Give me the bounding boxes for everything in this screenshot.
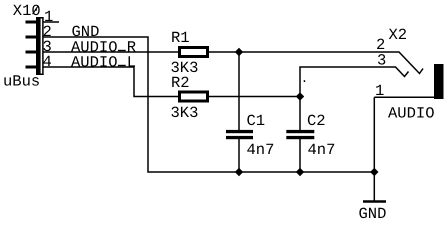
svg-text:1: 1 (375, 82, 384, 100)
svg-text:R1: R1 (171, 29, 190, 47)
svg-text:AUDIO: AUDIO (388, 105, 435, 123)
svg-text:R2: R2 (171, 74, 190, 92)
svg-text:GND: GND (359, 205, 387, 222)
svg-text:AUDIO L: AUDIO L (71, 54, 136, 72)
svg-text:3: 3 (377, 52, 386, 70)
svg-text:C1: C1 (247, 112, 266, 130)
svg-text:uBus: uBus (3, 73, 40, 91)
svg-text:3K3: 3K3 (171, 104, 199, 122)
svg-text:4: 4 (43, 53, 52, 71)
svg-text:C2: C2 (307, 112, 326, 130)
svg-text:X2: X2 (389, 26, 408, 44)
svg-text:4n7: 4n7 (308, 141, 336, 159)
svg-text:4n7: 4n7 (247, 141, 275, 159)
svg-text:X10: X10 (13, 2, 41, 20)
